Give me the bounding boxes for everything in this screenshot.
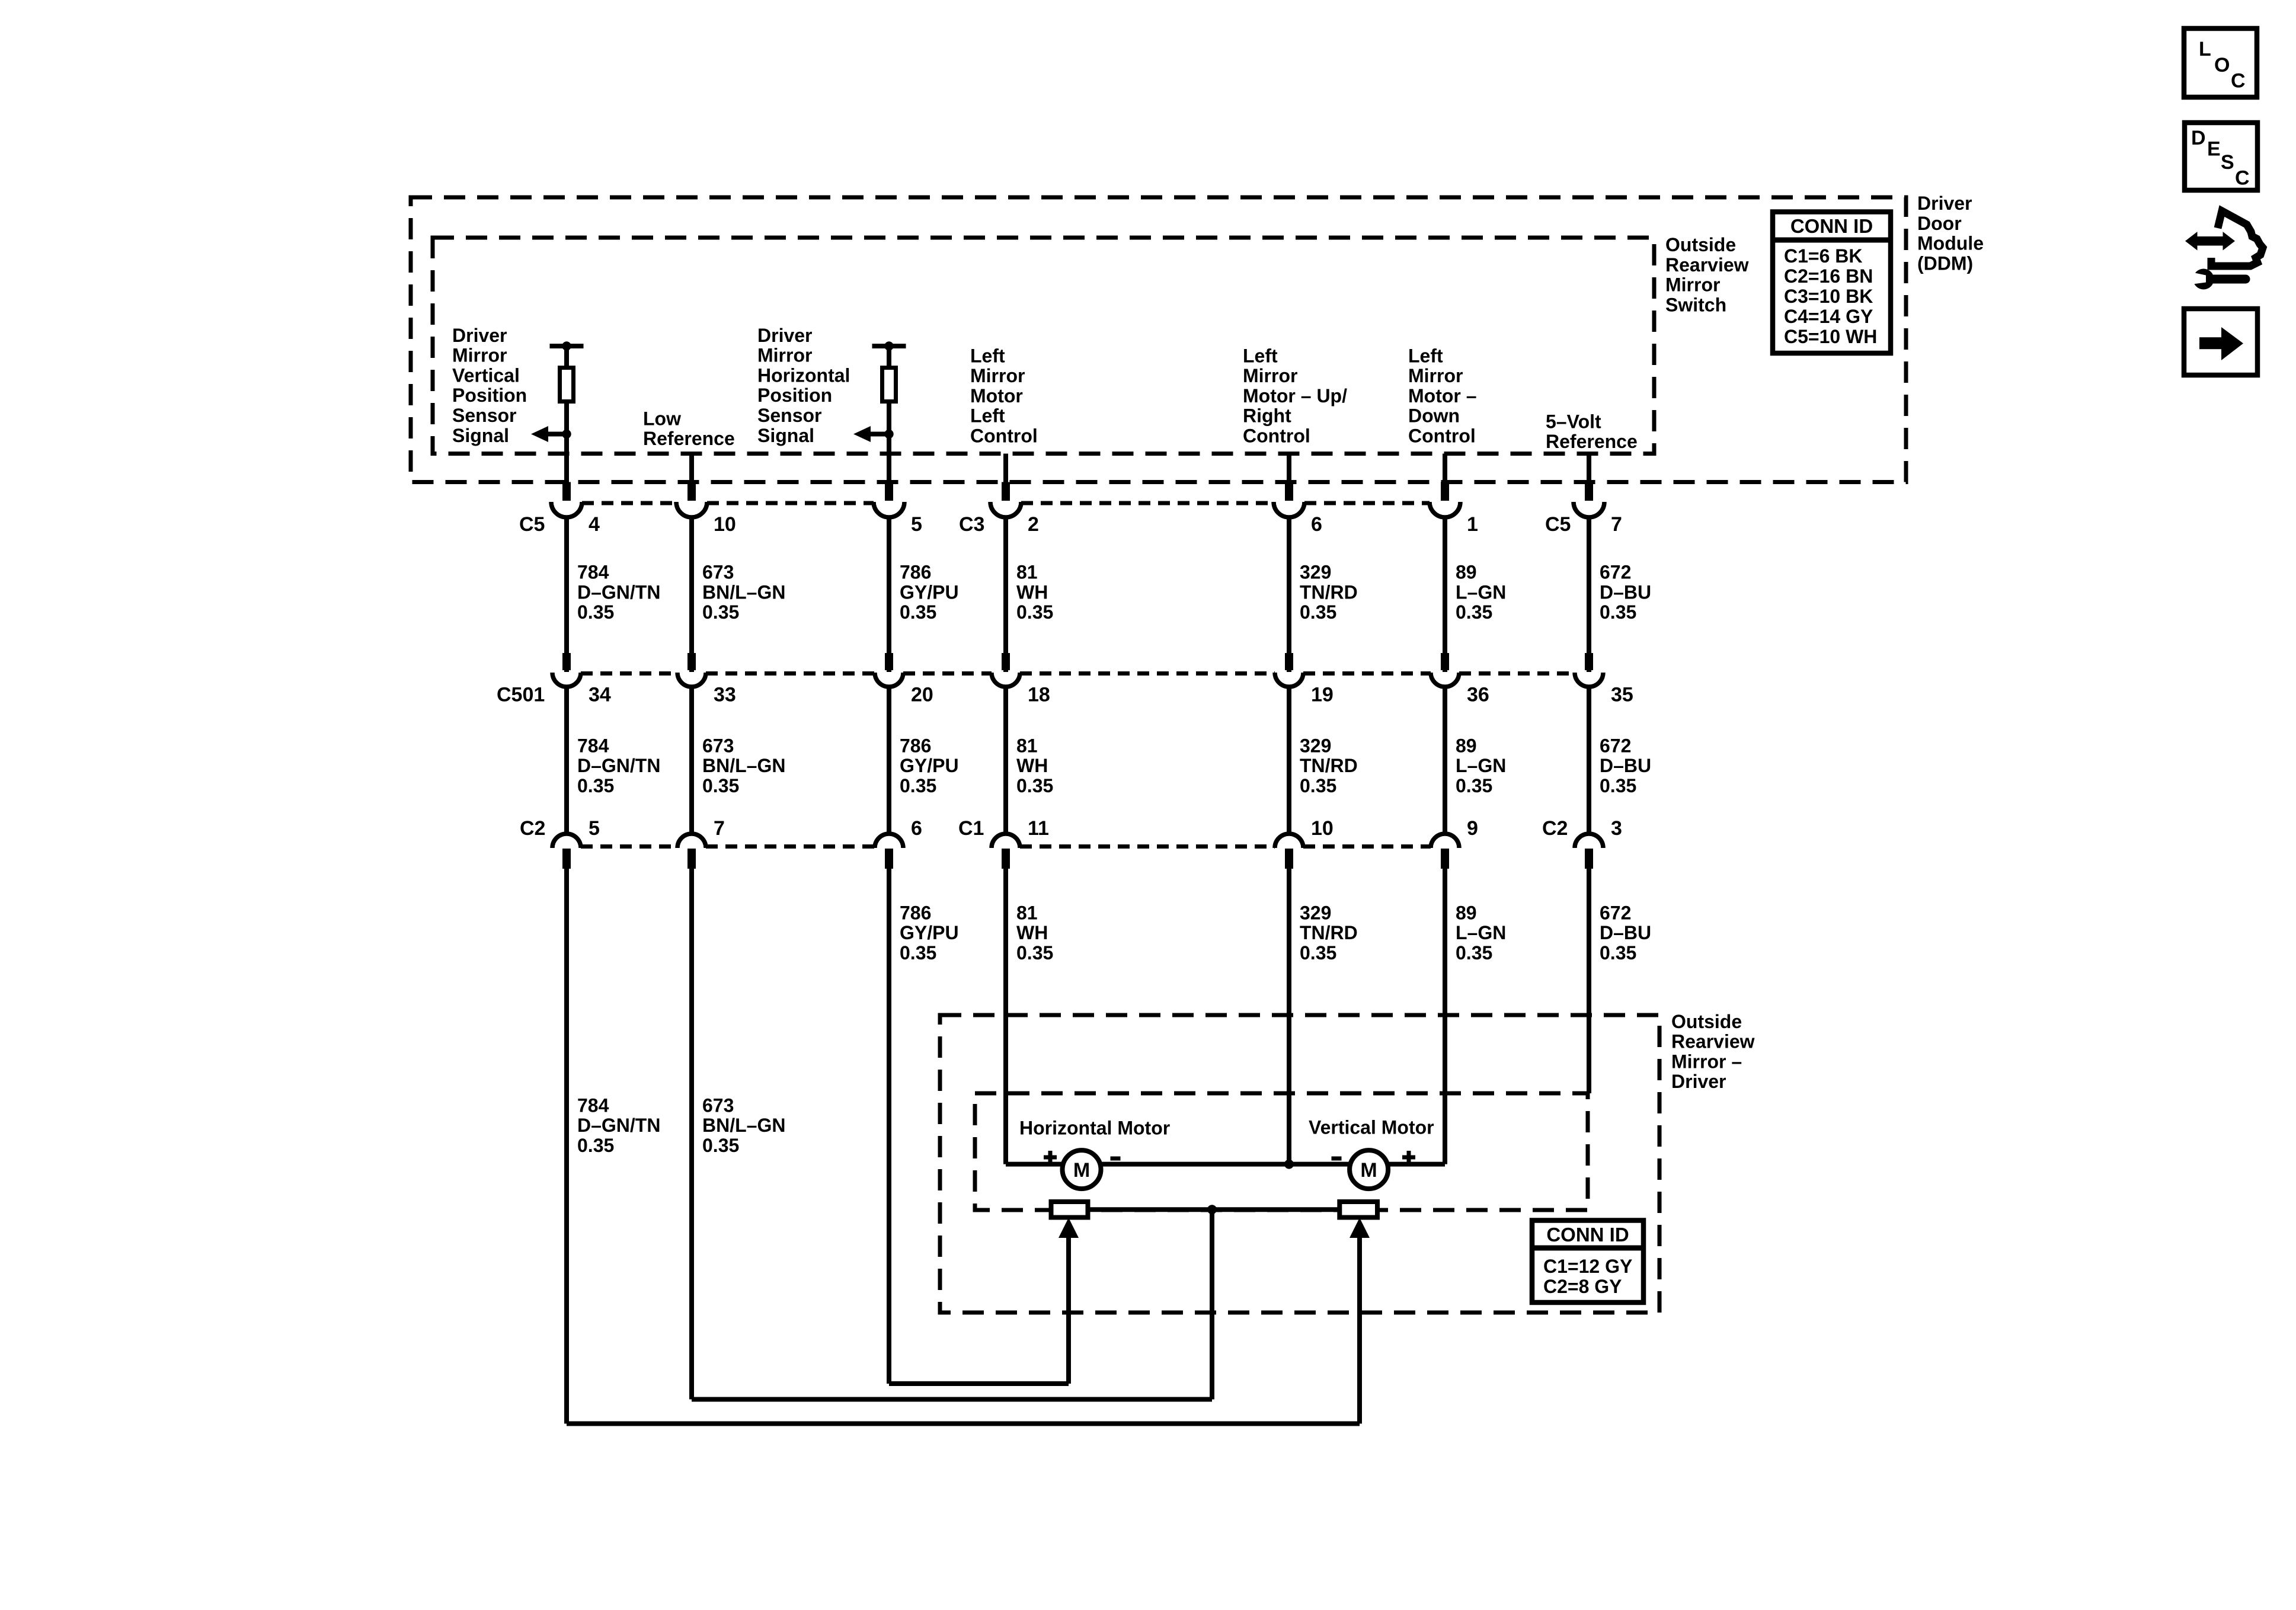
wire 672 row1-row2 [1587, 517, 1591, 672]
wire 784 below row3 [564, 869, 569, 1424]
connector row1 terminal col7 [1585, 482, 1593, 501]
connector row2 C501 terminal col2 [687, 653, 696, 670]
svg-text:C1=6 BK: C1=6 BK [1784, 245, 1863, 267]
svg-text:81: 81 [1016, 735, 1038, 756]
svg-text:784: 784 [577, 562, 609, 583]
polarity + horizontal motor [1044, 1151, 1057, 1164]
wire 329 row1-row2 [1287, 517, 1291, 672]
connector row2 C501 terminal col7 [1585, 653, 1593, 670]
svg-text:5: 5 [911, 513, 922, 536]
junction dot on top rail [562, 341, 571, 350]
svg-text:Low: Low [643, 408, 681, 429]
arrow into horizontal motor connector [1059, 1218, 1079, 1384]
svg-text:81: 81 [1016, 902, 1038, 923]
double-headed arrow of vehicle icon [2185, 232, 2235, 251]
svg-text:BN/L–GN: BN/L–GN [702, 755, 785, 776]
svg-text:Vertical Motor: Vertical Motor [1309, 1116, 1434, 1138]
svg-text:10: 10 [714, 513, 736, 536]
svg-text:Module: Module [1917, 233, 1984, 254]
svg-text:Mirror: Mirror [1243, 365, 1297, 386]
vertical motor M2 [1350, 1150, 1388, 1189]
connector row3 terminal col3 [885, 849, 893, 869]
wire 89 from switch internals to pin [1443, 454, 1447, 501]
DDM name label [1917, 193, 1984, 274]
wire label 89 block A [1456, 562, 1506, 623]
svg-text:786: 786 [900, 562, 931, 583]
svg-text:0.35: 0.35 [900, 942, 936, 964]
wire label 329 block C [1300, 902, 1358, 964]
connector C2/C1 dotted line row3 [581, 844, 677, 849]
CONN ID table for mirror connectors [1532, 1221, 1643, 1303]
svg-text:CONN ID: CONN ID [1546, 1224, 1629, 1246]
mirror connector box (vertical motor) [1339, 1202, 1377, 1218]
svg-text:0.35: 0.35 [577, 1135, 614, 1156]
wire label 329 block A [1300, 562, 1358, 623]
forward arrow icon box [2184, 309, 2257, 375]
svg-text:O: O [2214, 54, 2230, 76]
horizontal position sensor top rail [872, 344, 906, 348]
wire 784 row2-row3 [564, 687, 569, 834]
mirror connector box (horizontal motor) [1051, 1202, 1088, 1218]
svg-text:Down: Down [1408, 405, 1460, 427]
wire 81 WH to horizontal motor + [1006, 1162, 1063, 1167]
wire label 81 block A [1016, 562, 1053, 623]
svg-text:Right: Right [1243, 405, 1291, 427]
svg-text:Motor: Motor [970, 385, 1023, 406]
svg-text:S: S [2221, 151, 2234, 174]
svg-text:Left: Left [970, 405, 1005, 427]
svg-text:C2=8 GY: C2=8 GY [1543, 1276, 1622, 1297]
wire label 89 block C [1456, 902, 1506, 964]
svg-text:329: 329 [1300, 902, 1331, 923]
svg-text:D–GN/TN: D–GN/TN [577, 581, 660, 603]
svg-text:L–GN: L–GN [1456, 922, 1506, 943]
svg-text:GY/PU: GY/PU [900, 922, 959, 943]
svg-text:Reference: Reference [1546, 431, 1638, 452]
svg-text:0.35: 0.35 [1600, 942, 1636, 964]
wire 673 bottom run [692, 1397, 1212, 1402]
wire 672 below row3 [1587, 869, 1591, 1093]
label: Driver Mirror Horizontal Position Sensor Signal [757, 325, 850, 446]
wire label 672 block B [1600, 735, 1651, 796]
label: Left Mirror Motor Left Control [970, 345, 1038, 446]
label: Left Mirror Motor Down Control [1408, 345, 1477, 446]
svg-text:Control: Control [970, 425, 1038, 447]
svg-text:Outside: Outside [1665, 234, 1736, 255]
wire label 786 block C [900, 902, 959, 964]
svg-text:Reference: Reference [643, 428, 735, 449]
svg-text:673: 673 [702, 562, 734, 583]
svg-text:7: 7 [714, 817, 725, 840]
arrow into vertical motor connector [1350, 1218, 1370, 1424]
svg-text:C5: C5 [1545, 513, 1571, 536]
svg-text:35: 35 [1611, 683, 1633, 706]
wire 89 row1-row2 [1443, 517, 1447, 672]
connector C501 dotted line row2 [581, 671, 677, 676]
svg-text:TN/RD: TN/RD [1300, 755, 1358, 776]
wire 81 row2-row3 [1003, 687, 1008, 834]
svg-text:C501: C501 [497, 683, 545, 706]
wire 673 row1-row2 [689, 517, 694, 672]
svg-text:784: 784 [577, 1094, 609, 1116]
svg-text:Motor –: Motor – [1408, 385, 1477, 406]
svg-text:CONN ID: CONN ID [1790, 215, 1873, 237]
wire 89 row2-row3 [1443, 687, 1447, 834]
Outside Rearview Mirror - Driver outer dashed box [940, 1015, 1659, 1313]
connector row2 C501 terminal col1 [562, 653, 571, 670]
wire label 672 block C [1600, 902, 1651, 964]
svg-text:Mirror: Mirror [1408, 365, 1463, 386]
wire 786 row2-row3 [887, 687, 891, 834]
svg-text:TN/RD: TN/RD [1300, 922, 1358, 943]
wire 784 row1-row2 [564, 517, 569, 672]
svg-text:34: 34 [589, 683, 611, 706]
switch name label [1665, 234, 1749, 315]
LOC icon box [2184, 28, 2257, 97]
wrench of vehicle icon [2191, 269, 2246, 290]
svg-text:11: 11 [1028, 817, 1049, 840]
svg-text:0.35: 0.35 [1456, 601, 1492, 623]
svg-text:Motor – Up/: Motor – Up/ [1243, 385, 1347, 406]
wire 673 row2-row3 [689, 687, 694, 834]
DESC icon box [2185, 123, 2257, 190]
connector row1 terminal col2 [687, 482, 696, 501]
svg-text:Outside: Outside [1671, 1011, 1742, 1032]
wire 673 below row3 [689, 869, 694, 1400]
svg-text:Mirror –: Mirror – [1671, 1051, 1742, 1072]
connector row3 terminal col2 [687, 849, 696, 869]
svg-text:36: 36 [1467, 683, 1489, 706]
svg-text:329: 329 [1300, 562, 1331, 583]
svg-text:89: 89 [1456, 902, 1477, 923]
svg-text:GY/PU: GY/PU [900, 581, 959, 603]
svg-text:2: 2 [1028, 513, 1039, 536]
svg-text:C5=10 WH: C5=10 WH [1784, 326, 1877, 347]
svg-text:89: 89 [1456, 735, 1477, 756]
wire 784 bottom run [567, 1422, 1360, 1426]
svg-text:WH: WH [1016, 581, 1048, 603]
polarity - vertical motor [1332, 1157, 1342, 1161]
CONN ID table for switch connectors [1773, 212, 1891, 354]
connector row2 C501 terminal col6 [1441, 653, 1449, 670]
svg-text:BN/L–GN: BN/L–GN [702, 581, 785, 603]
polarity - horizontal motor [1111, 1157, 1121, 1161]
svg-text:1: 1 [1467, 513, 1478, 536]
svg-text:0.35: 0.35 [1016, 601, 1053, 623]
sensor feed wire [564, 346, 569, 501]
svg-text:C3=10 BK: C3=10 BK [1784, 286, 1873, 307]
wire between motors (common) [1100, 1162, 1351, 1167]
svg-text:D–GN/TN: D–GN/TN [577, 755, 660, 776]
svg-text:672: 672 [1600, 735, 1631, 756]
svg-text:C3: C3 [959, 513, 984, 536]
wire label 329 block B [1300, 735, 1358, 796]
junction dot wire 329 at motor common [1284, 1160, 1294, 1169]
wire linking connector boxes [1088, 1207, 1340, 1212]
svg-text:673: 673 [702, 735, 734, 756]
wire 89 below row3 [1443, 869, 1447, 1164]
mirror assembly label [1671, 1011, 1755, 1092]
svg-text:M: M [1073, 1159, 1090, 1182]
connector row1 terminal col4 [1002, 482, 1010, 501]
wire 81 below row3 [1003, 869, 1008, 1164]
svg-text:C1=12 GY: C1=12 GY [1543, 1256, 1632, 1277]
svg-text:Mirror: Mirror [1665, 274, 1720, 296]
wire 786 below row3 [887, 869, 891, 1384]
svg-text:D–BU: D–BU [1600, 755, 1651, 776]
connector row3 terminal col4 [1002, 849, 1010, 869]
wire 329 row2-row3 [1287, 687, 1291, 834]
wire 673 junction drop [1210, 1209, 1214, 1399]
label: Left Mirror Motor Up/Right Control [1243, 345, 1347, 446]
svg-text:5–Volt: 5–Volt [1546, 411, 1601, 432]
Outside Rearview Mirror Switch inner dashed box [433, 238, 1654, 454]
svg-text:Driver: Driver [757, 325, 813, 346]
svg-text:786: 786 [900, 902, 931, 923]
svg-text:D–BU: D–BU [1600, 922, 1651, 943]
vehicle diagnostic icon (car outline) [2211, 211, 2263, 266]
svg-text:Left: Left [1408, 345, 1443, 366]
wire label 89 block B [1456, 735, 1506, 796]
svg-text:3: 3 [1611, 817, 1622, 840]
svg-text:6: 6 [1311, 513, 1322, 536]
wire 672 from switch internals to pin [1587, 454, 1591, 501]
svg-text:Horizontal Motor: Horizontal Motor [1019, 1117, 1170, 1138]
wiper arrow to signal [853, 426, 894, 442]
svg-text:Sensor: Sensor [757, 405, 821, 426]
svg-text:Switch: Switch [1665, 294, 1726, 315]
svg-text:TN/RD: TN/RD [1300, 581, 1358, 603]
wire label 786 block B [900, 735, 959, 796]
svg-text:6: 6 [911, 817, 922, 840]
svg-text:C1: C1 [958, 817, 984, 840]
svg-text:WH: WH [1016, 755, 1048, 776]
svg-text:C5: C5 [519, 513, 545, 536]
wire 81 from switch internals to pin [1003, 454, 1008, 501]
svg-text:0.35: 0.35 [1600, 775, 1636, 796]
wire 329 from switch internals to pin [1287, 454, 1291, 501]
svg-text:L: L [2199, 38, 2211, 60]
wire label 784 block A [577, 562, 660, 623]
svg-text:GY/PU: GY/PU [900, 755, 959, 776]
wire label 81 block C [1016, 902, 1053, 964]
svg-text:Mirror: Mirror [970, 365, 1025, 386]
svg-text:(DDM): (DDM) [1917, 252, 1973, 274]
svg-text:4: 4 [589, 513, 600, 536]
sensor feed wire [887, 346, 891, 501]
svg-text:Control: Control [1243, 425, 1310, 447]
svg-text:Sensor: Sensor [452, 405, 516, 426]
svg-text:Driver: Driver [1917, 193, 1972, 214]
svg-text:Driver: Driver [452, 325, 507, 346]
svg-text:0.35: 0.35 [900, 601, 936, 623]
mirror motor pack inner dashed box [975, 1093, 1588, 1210]
svg-text:C: C [2231, 70, 2246, 92]
svg-text:L–GN: L–GN [1456, 755, 1506, 776]
svg-text:329: 329 [1300, 735, 1331, 756]
junction dot on top rail [884, 341, 893, 350]
svg-text:89: 89 [1456, 562, 1477, 583]
connector row3 terminal col7 [1585, 849, 1593, 869]
connector row1 terminal col3 [885, 482, 893, 501]
svg-text:0.35: 0.35 [1456, 942, 1492, 964]
connector row1 terminal col5 [1285, 482, 1293, 501]
svg-text:Driver: Driver [1671, 1071, 1726, 1092]
wire label 786 block A [900, 562, 959, 623]
svg-text:D–GN/TN: D–GN/TN [577, 1115, 660, 1136]
svg-text:0.35: 0.35 [1600, 601, 1636, 623]
vertical position sensor top rail [550, 344, 584, 348]
Driver Door Module (DDM) outer dashed box [411, 197, 1906, 482]
svg-text:L–GN: L–GN [1456, 581, 1506, 603]
wire 673 from switch internals to pin [689, 454, 694, 501]
svg-text:Left: Left [970, 345, 1005, 366]
label: 5-Volt Reference [1546, 411, 1638, 452]
svg-text:0.35: 0.35 [577, 601, 614, 623]
svg-text:672: 672 [1600, 902, 1631, 923]
svg-text:0.35: 0.35 [702, 775, 739, 796]
svg-text:C: C [2235, 167, 2250, 190]
polarity + vertical motor [1402, 1151, 1415, 1164]
svg-text:Mirror: Mirror [757, 345, 812, 366]
svg-text:Horizontal: Horizontal [757, 364, 850, 386]
junction dot on linking wire [1207, 1205, 1217, 1214]
svg-text:Rearview: Rearview [1665, 254, 1749, 276]
wire label 673 block D [702, 1094, 785, 1156]
svg-text:5: 5 [589, 817, 600, 840]
svg-text:0.35: 0.35 [900, 775, 936, 796]
svg-text:0.35: 0.35 [702, 1135, 739, 1156]
svg-text:18: 18 [1028, 683, 1050, 706]
label: Low Reference [643, 408, 735, 449]
connector row2 C501 terminal col5 [1285, 653, 1293, 670]
wire label 673 block A [702, 562, 785, 623]
wiper arrow to signal [531, 426, 571, 442]
svg-text:673: 673 [702, 1094, 734, 1116]
svg-text:M: M [1360, 1159, 1377, 1182]
svg-text:81: 81 [1016, 562, 1038, 583]
svg-text:0.35: 0.35 [702, 601, 739, 623]
svg-text:E: E [2207, 138, 2221, 161]
connector row1 terminal col6 [1441, 482, 1449, 501]
resistor (position sensor element) [560, 368, 574, 402]
svg-text:20: 20 [911, 683, 933, 706]
wire 81 row1-row2 [1003, 517, 1008, 672]
svg-text:10: 10 [1311, 817, 1334, 840]
svg-text:C4=14 GY: C4=14 GY [1784, 306, 1873, 327]
wire label 673 block B [702, 735, 785, 796]
label: Driver Mirror Vertical Position Sensor Signal [452, 325, 527, 446]
connector C5/C3 dotted line row1 [582, 501, 676, 505]
svg-text:D–BU: D–BU [1600, 581, 1651, 603]
svg-text:Control: Control [1408, 425, 1476, 447]
connector row3 terminal col1 [562, 849, 571, 869]
horizontal motor M1 [1063, 1150, 1101, 1189]
svg-text:786: 786 [900, 735, 931, 756]
svg-text:19: 19 [1311, 683, 1334, 706]
svg-text:0.35: 0.35 [1456, 775, 1492, 796]
svg-text:C2: C2 [1542, 817, 1568, 840]
svg-text:0.35: 0.35 [1300, 601, 1336, 623]
svg-text:Position: Position [757, 385, 832, 406]
wire 329 below row3 [1287, 869, 1291, 1165]
svg-text:Mirror: Mirror [452, 345, 507, 366]
svg-text:33: 33 [714, 683, 736, 706]
wire label 672 block A [1600, 562, 1651, 623]
svg-text:0.35: 0.35 [1300, 942, 1336, 964]
wire 672 row2-row3 [1587, 687, 1591, 834]
svg-text:672: 672 [1600, 562, 1631, 583]
svg-text:C2=16 BN: C2=16 BN [1784, 265, 1873, 287]
connector row2 C501 terminal col4 [1002, 653, 1010, 670]
connector row2 C501 terminal col3 [885, 653, 893, 670]
wire label 784 block D [577, 1094, 660, 1156]
svg-text:Door: Door [1917, 213, 1962, 234]
wire label 81 block B [1016, 735, 1053, 796]
connector row3 terminal col5 [1285, 849, 1293, 869]
svg-text:Position: Position [452, 385, 527, 406]
svg-text:0.35: 0.35 [1016, 942, 1053, 964]
svg-text:Rearview: Rearview [1671, 1031, 1755, 1052]
svg-text:C2: C2 [520, 817, 545, 840]
svg-text:0.35: 0.35 [1300, 775, 1336, 796]
svg-text:9: 9 [1467, 817, 1478, 840]
svg-text:784: 784 [577, 735, 609, 756]
svg-text:Vertical: Vertical [452, 364, 520, 386]
wire vertical motor + to 89 L-GN [1387, 1162, 1445, 1167]
wire label 784 block B [577, 735, 660, 796]
svg-text:7: 7 [1611, 513, 1622, 536]
svg-text:D: D [2191, 127, 2206, 149]
connector row1 terminal col1 [562, 482, 571, 501]
svg-text:Signal: Signal [757, 425, 814, 446]
wire 786 row1-row2 [887, 517, 891, 672]
svg-text:BN/L–GN: BN/L–GN [702, 1115, 785, 1136]
connector row3 terminal col6 [1441, 849, 1449, 869]
svg-text:WH: WH [1016, 922, 1048, 943]
svg-text:Left: Left [1243, 345, 1278, 366]
resistor (position sensor element) [882, 368, 896, 402]
wire 786 bottom run [889, 1381, 1069, 1386]
svg-text:0.35: 0.35 [1016, 775, 1053, 796]
svg-text:Signal: Signal [452, 425, 509, 446]
svg-text:0.35: 0.35 [577, 775, 614, 796]
